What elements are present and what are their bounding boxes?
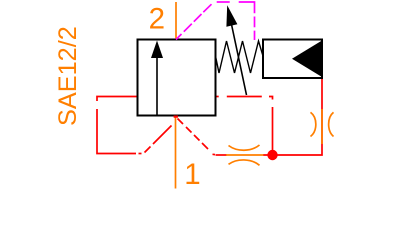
svg-text:SAE12/2: SAE12/2: [54, 26, 82, 126]
svg-text:1: 1: [184, 158, 200, 191]
svg-text:2: 2: [149, 2, 165, 35]
